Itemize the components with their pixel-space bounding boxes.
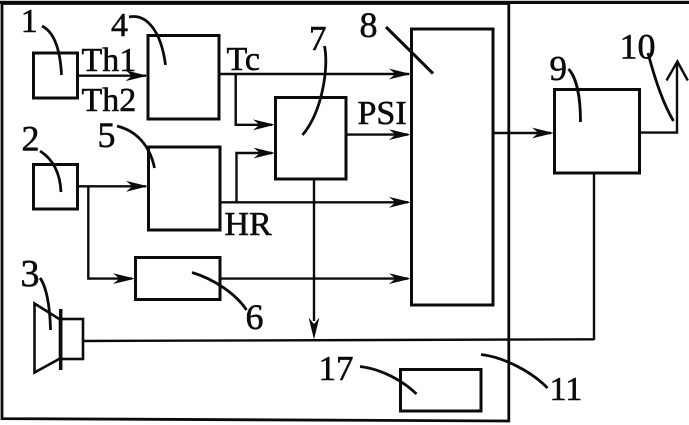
- speaker 3 horn: [35, 304, 61, 373]
- block 7: [276, 98, 347, 180]
- svg-text:11: 11: [550, 371, 583, 408]
- wire block1 to block4: [78, 74, 147, 76]
- wire PSI block7 to block8: [346, 133, 408, 135]
- wire block2 to block5: [78, 185, 147, 187]
- svg-text:4: 4: [111, 7, 128, 44]
- leader line 3: [40, 278, 51, 330]
- block 2 (sensor): [34, 165, 78, 210]
- wire HR branch up to block7: [237, 153, 273, 202]
- svg-text:HR: HR: [225, 206, 273, 243]
- block 8: [412, 29, 494, 305]
- block 17: [401, 370, 482, 412]
- svg-text:Tc: Tc: [227, 41, 261, 78]
- leader line 10: [648, 53, 674, 121]
- block 6: [136, 258, 221, 300]
- svg-text:7: 7: [309, 19, 327, 58]
- svg-text:3: 3: [21, 253, 40, 295]
- leader line 9: [569, 69, 581, 122]
- speaker 3 membrane: [59, 309, 63, 370]
- block 9: [555, 90, 640, 174]
- leader line 1: [42, 26, 62, 75]
- svg-text:Th2: Th2: [82, 82, 137, 119]
- wire block6 to block8: [220, 277, 408, 279]
- leader line 11: [481, 355, 548, 389]
- leader line 8: [386, 27, 433, 74]
- wire block8 to block9: [494, 132, 552, 134]
- speaker 3 driver: [61, 319, 84, 359]
- wire Tc branch to block7: [236, 74, 272, 125]
- svg-text:Th1: Th1: [82, 42, 137, 79]
- wire speaker bus line: [83, 339, 594, 341]
- block 4: [148, 36, 219, 120]
- wire Tc block4 to block8: [220, 73, 410, 75]
- leader line 4: [129, 17, 166, 65]
- leader line 17: [360, 367, 417, 395]
- svg-text:6: 6: [246, 297, 264, 337]
- wire block7 bottom down arrow: [313, 180, 315, 322]
- svg-text:8: 8: [360, 5, 378, 45]
- svg-text:5: 5: [98, 115, 116, 155]
- leader line 7: [303, 46, 326, 135]
- leader line 5: [117, 126, 155, 168]
- svg-text:1: 1: [21, 3, 38, 40]
- wire branch block2 down to block6: [88, 186, 132, 278]
- enclosure box 11: [2, 4, 509, 422]
- svg-text:PSI: PSI: [358, 95, 407, 132]
- leader line 6: [192, 273, 247, 311]
- leader line 2: [40, 151, 61, 192]
- wire HR block5 to block8: [220, 201, 408, 203]
- svg-text:2: 2: [22, 119, 40, 159]
- svg-text:17: 17: [319, 349, 354, 388]
- wire block9 bottom down: [593, 174, 595, 341]
- block 1 (sensor): [34, 53, 78, 98]
- svg-text:9: 9: [550, 49, 568, 88]
- wire block9 output up arrow 10: [640, 63, 677, 133]
- block 5: [149, 147, 221, 230]
